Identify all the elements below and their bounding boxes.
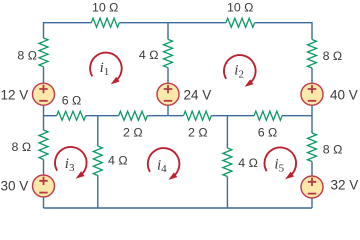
label 10 Ω (top-right resistor) xyxy=(227,0,254,14)
label 8 Ω (lower-right resistor) xyxy=(323,143,343,157)
svg-text:30 V: 30 V xyxy=(1,179,29,194)
label 8 Ω (upper-right resistor) xyxy=(323,49,343,63)
wire left rail between 8 ohm and 12V source xyxy=(43,67,45,83)
mesh current arrow i2 (clockwise) xyxy=(224,55,256,87)
svg-text:10 Ω: 10 Ω xyxy=(227,0,254,14)
label 12 V xyxy=(1,87,29,102)
wire right rail from 40V source to mid rail junction xyxy=(311,105,313,133)
resistor 8 ohm upper-left xyxy=(39,38,48,67)
svg-text:32 V: 32 V xyxy=(331,177,359,192)
svg-text:8 Ω: 8 Ω xyxy=(12,140,32,154)
wire left rail bottom corner xyxy=(43,197,45,208)
label 4 Ω (inner-right resistor) xyxy=(238,156,258,170)
voltage source 40V (+ top) xyxy=(301,83,323,105)
wire mid rail right stub to right rail xyxy=(282,115,312,117)
wire middle branch from 24V source to mid rail junction xyxy=(167,105,169,116)
svg-text:2 Ω: 2 Ω xyxy=(123,125,143,139)
label 32 V xyxy=(331,177,359,192)
svg-text:8 Ω: 8 Ω xyxy=(323,49,343,63)
wire right rail bottom corner xyxy=(311,198,313,208)
mesh current arrow i1 (clockwise) xyxy=(90,53,122,85)
label 6 Ω (mid-left resistor) xyxy=(62,94,82,108)
svg-text:12 V: 12 V xyxy=(1,87,29,102)
mesh current arrow i4 (clockwise) xyxy=(148,148,180,180)
wire bottom rail xyxy=(44,207,313,209)
label 4 Ω (inner-left resistor) xyxy=(108,154,128,168)
resistor 4 ohm middle branch xyxy=(164,39,173,67)
resistor 6 ohm mid-right xyxy=(254,111,282,120)
label i1 xyxy=(100,60,110,78)
label 8 Ω (lower-left resistor) xyxy=(12,140,32,154)
svg-text:6 Ω: 6 Ω xyxy=(258,125,278,139)
label 10 Ω (top-left resistor) xyxy=(92,0,119,14)
svg-text:24 V: 24 V xyxy=(184,87,212,102)
label i3 xyxy=(65,156,75,174)
resistor 4 ohm inner-left xyxy=(93,146,102,176)
resistor 2 ohm mid-right xyxy=(184,111,212,120)
svg-text:40 V: 40 V xyxy=(330,87,358,102)
wire mid rail segment to middle branch junction xyxy=(147,115,183,117)
resistor 10 ohm top-left xyxy=(91,18,119,27)
resistor 8 ohm lower-right xyxy=(308,133,317,162)
resistor 4 ohm inner-right xyxy=(223,148,232,177)
label 24 V xyxy=(184,87,212,102)
svg-text:8 Ω: 8 Ω xyxy=(323,143,343,157)
label 4 Ω (middle branch resistor) xyxy=(139,48,159,62)
label 8 Ω (upper-left resistor) xyxy=(17,49,37,63)
mesh current arrow i3 (clockwise) xyxy=(55,147,87,179)
voltage source 32V (+ top) xyxy=(301,176,323,198)
label 2 Ω (left 2 ohm resistor) xyxy=(123,125,143,139)
svg-text:4 Ω: 4 Ω xyxy=(108,154,128,168)
label i4 xyxy=(157,157,167,175)
svg-text:4 Ω: 4 Ω xyxy=(139,48,159,62)
wire mid rail segment to inner-left junction xyxy=(86,115,119,117)
svg-text:6 Ω: 6 Ω xyxy=(62,94,82,108)
wire inner-left branch lower stub to bottom rail xyxy=(97,176,99,209)
resistor 8 ohm lower-left xyxy=(39,130,48,160)
wire right rail between 8 ohm and 32V source xyxy=(311,162,313,177)
label 30 V xyxy=(1,179,29,194)
resistor 10 ohm top-right xyxy=(226,18,255,27)
wire inner-right branch upper stub xyxy=(226,116,228,148)
resistor 6 ohm mid-left xyxy=(57,111,86,120)
resistor 8 ohm upper-right xyxy=(308,40,317,69)
voltage source 30V (+ top) xyxy=(33,175,55,197)
wire top-middle segment with junction to middle branch xyxy=(119,23,226,40)
voltage source 24V (+ top) xyxy=(157,83,179,105)
voltage source 12V (+ top) xyxy=(33,83,55,105)
wire right rail between 8 ohm and 40V source xyxy=(311,68,313,83)
wire top-right segment (to right rail corner) xyxy=(255,23,312,40)
label 40 V xyxy=(330,87,358,102)
label 6 Ω (mid-right resistor) xyxy=(258,125,278,139)
wire mid rail segment to inner-right junction xyxy=(211,115,254,117)
svg-text:4 Ω: 4 Ω xyxy=(238,156,258,170)
svg-text:10 Ω: 10 Ω xyxy=(92,0,119,14)
wire inner-right branch lower stub to bottom rail xyxy=(226,177,228,209)
label i2 xyxy=(234,63,244,81)
label i5 xyxy=(274,157,284,175)
wire left rail from 12V source to mid rail junction xyxy=(43,105,45,130)
wire mid rail left stub from 12V junction xyxy=(44,115,57,117)
wire inner-left branch upper stub xyxy=(97,116,99,146)
wire left rail between 8 ohm and 30V source xyxy=(43,160,45,175)
svg-text:8 Ω: 8 Ω xyxy=(17,49,37,63)
wire middle branch between 4 ohm and 24V source xyxy=(167,68,169,84)
resistor 2 ohm mid-left xyxy=(119,111,148,120)
mesh current arrow i5 (clockwise) xyxy=(265,147,297,179)
wire top-left segment (left rail corner to R1) xyxy=(44,23,92,39)
label 2 Ω (right 2 ohm resistor) xyxy=(188,125,208,139)
svg-text:2 Ω: 2 Ω xyxy=(188,125,208,139)
